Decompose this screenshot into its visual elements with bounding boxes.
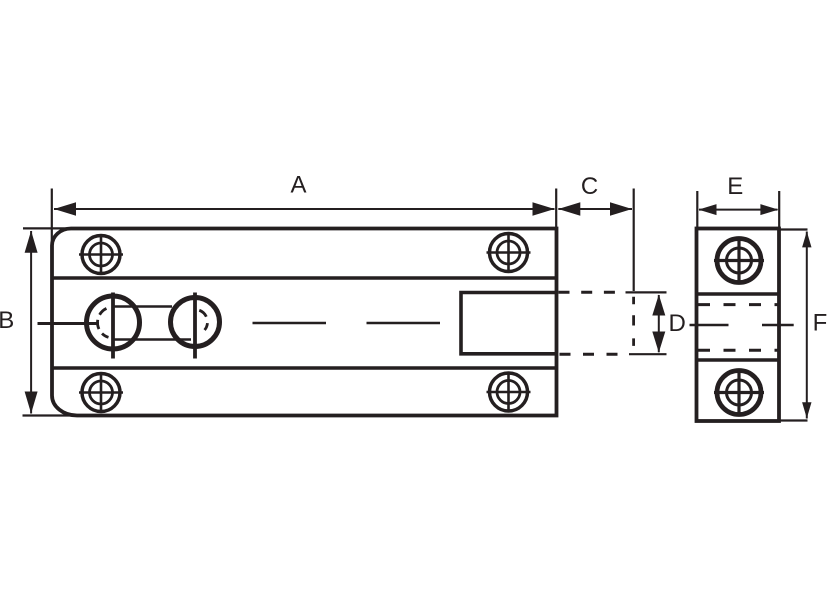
dim D tick top [626, 291, 667, 293]
dim C arrow right [610, 202, 632, 215]
svg-text:F: F [813, 310, 828, 337]
dim D arrow up [652, 295, 665, 316]
extended bolt hidden end line [632, 297, 635, 346]
side view keeper outline [697, 229, 780, 422]
knob bottom connector line [114, 338, 191, 340]
dim E arrow right [760, 204, 778, 215]
knob right circle [171, 298, 220, 347]
center line solid segment [38, 322, 100, 325]
side screw top [714, 238, 764, 284]
dim D arrow down [652, 332, 665, 353]
dim E extension line left [696, 191, 698, 227]
dim B extension line top [23, 227, 72, 229]
dim D tick bottom [629, 353, 667, 355]
knob left circle [87, 296, 140, 349]
dim A extension line left [51, 189, 53, 251]
dim F extension line top [779, 228, 808, 230]
dim B arrow down [25, 392, 38, 414]
side view bottom band line [697, 358, 780, 362]
dim A line [54, 208, 555, 210]
svg-text:A: A [290, 172, 306, 199]
dim F arrow down [802, 402, 811, 418]
svg-text:C: C [581, 173, 598, 200]
svg-text:B: B [0, 307, 14, 334]
side view hidden bolt top line [698, 303, 778, 306]
knob left vertical line [111, 293, 115, 359]
side view center line right segment [762, 324, 794, 327]
body bottom band line [52, 366, 557, 370]
body top band line [52, 276, 557, 280]
screw top-left [79, 235, 123, 274]
knob right vertical line [193, 293, 197, 359]
side view top band line [697, 292, 780, 296]
dim B arrow up [25, 231, 38, 253]
side view hidden bolt bottom line [698, 349, 778, 352]
dim F line [806, 232, 808, 419]
dim B extension line bottom [23, 414, 79, 416]
dim E arrow left [699, 204, 717, 215]
svg-text:E: E [727, 173, 743, 200]
dim A arrow right [533, 202, 555, 215]
center line dash 1 [253, 322, 327, 325]
center line dash 2 [367, 322, 441, 325]
bolt guide bracket rectangle [461, 293, 557, 354]
dim C line [558, 208, 632, 210]
extended bolt hidden top line [559, 291, 616, 294]
dim D line [658, 295, 660, 352]
knob top connector line [114, 305, 172, 307]
side view center line left segment [690, 324, 729, 327]
knob left hidden arc [98, 308, 109, 337]
screw bottom-right [487, 373, 531, 412]
screw bottom-left [79, 373, 123, 412]
dim C arrow left [558, 202, 580, 215]
dim A arrow left [54, 202, 76, 215]
screw top-right [487, 233, 531, 272]
dim F arrow up [802, 231, 811, 247]
svg-text:D: D [669, 310, 686, 337]
dim F extension line bottom [779, 419, 808, 421]
dim E extension line right [778, 191, 780, 227]
dim A extension line right [555, 189, 557, 228]
dim E line [699, 209, 778, 211]
bolt body outline (front view) [52, 229, 557, 416]
knob right hidden arc [199, 310, 207, 330]
dim B line [30, 231, 32, 414]
extended bolt hidden bottom line [560, 353, 620, 356]
dim C extension line right [633, 189, 635, 292]
side screw bottom [714, 370, 764, 416]
